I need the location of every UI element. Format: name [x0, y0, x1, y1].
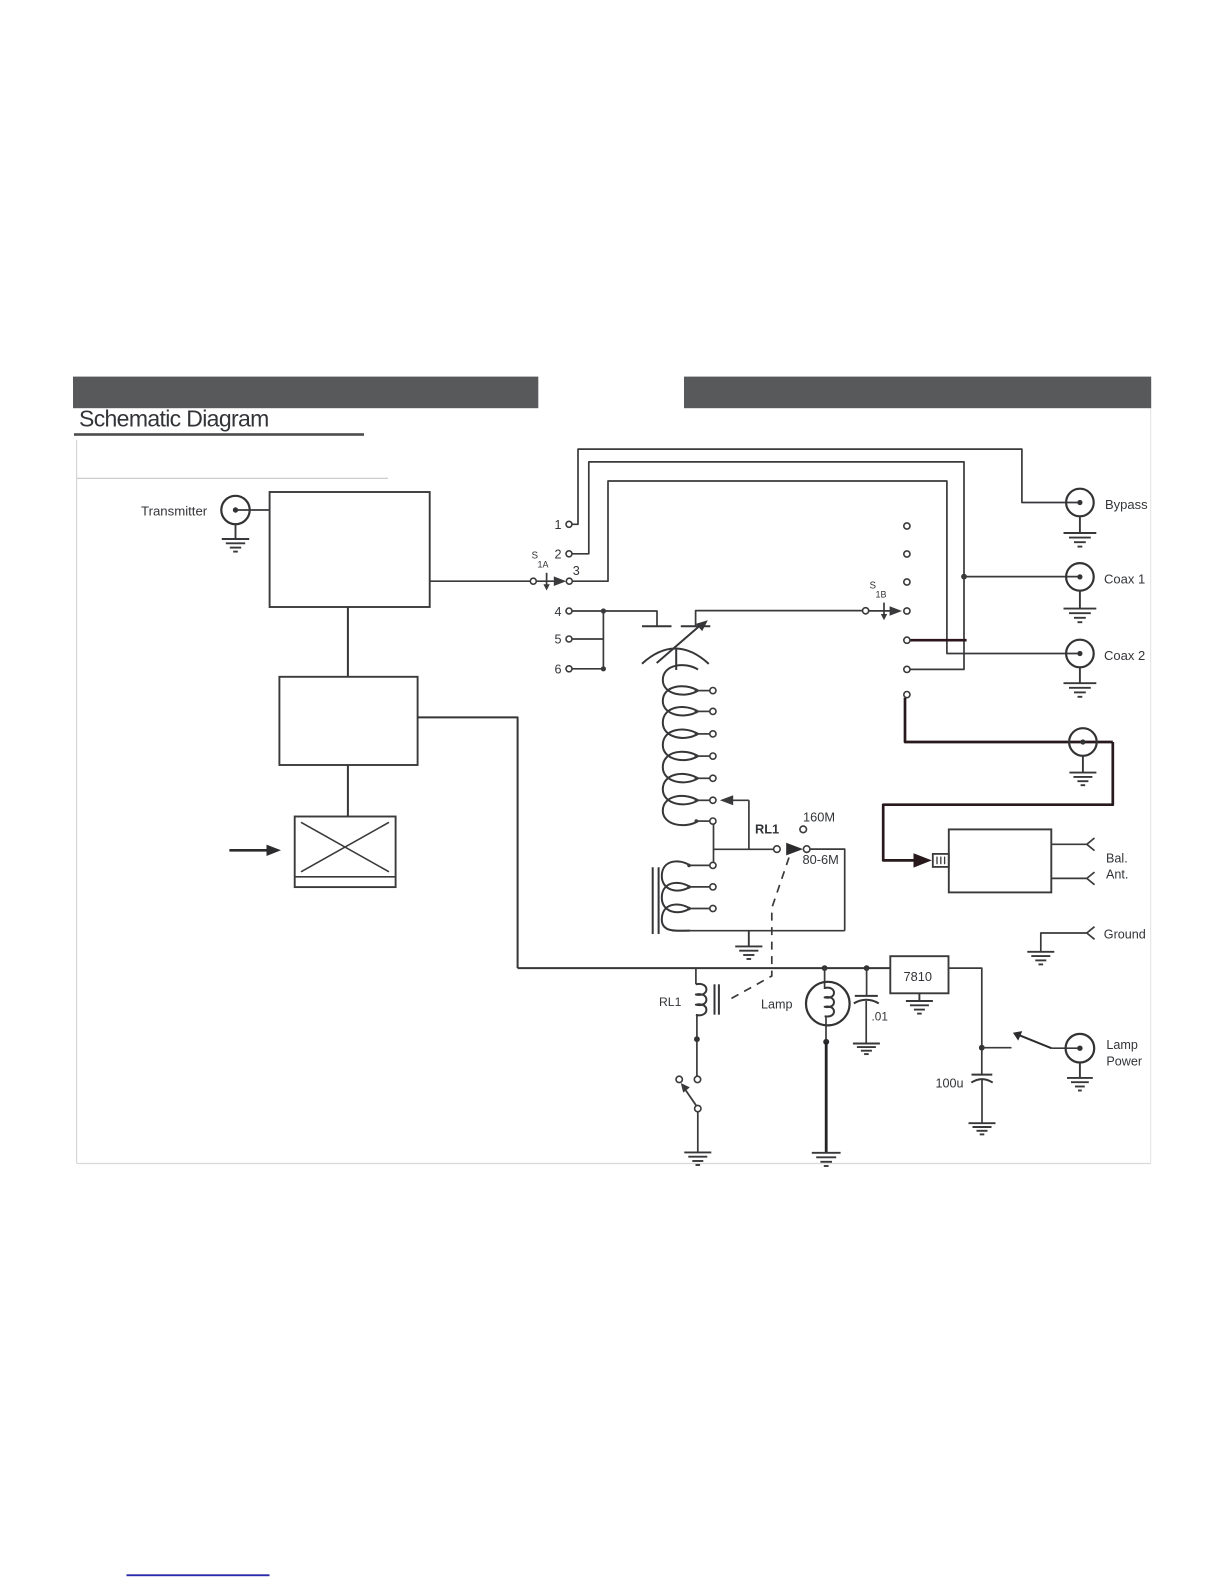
svg-text:Power: Power — [1106, 1054, 1142, 1068]
wire lamp power connector lead — [1051, 1047, 1079, 1049]
balun output lead upper — [1051, 843, 1087, 845]
RL1 sense switch lower contact — [695, 1105, 701, 1111]
wire aux connector to balun feed — [883, 742, 1113, 860]
Bypass connector — [1066, 489, 1094, 517]
Transmitter connector J1 — [221, 496, 249, 524]
relay RL1 contact 80-6M — [803, 846, 810, 853]
capacitor C1 rotor arc — [642, 648, 709, 663]
wire ground terminal — [1041, 933, 1087, 952]
inductor L1 tap leads — [697, 691, 710, 822]
capacitor C1 left plate — [642, 625, 672, 627]
S1A contact 3 — [566, 578, 572, 584]
switch S1A through wire — [536, 580, 557, 582]
relay RL1 contact 160M — [800, 826, 807, 833]
footer blue link line — [127, 1574, 270, 1576]
ground under 100u — [969, 1123, 996, 1134]
aux connector J5 — [1069, 728, 1097, 756]
inductor L1 tap circles — [710, 688, 716, 825]
header gray bar right — [684, 377, 1151, 409]
ground under Bypass — [1064, 516, 1097, 546]
transformer T1 winding — [662, 861, 690, 931]
svg-text:1: 1 — [555, 518, 562, 532]
svg-text:Ant.: Ant. — [1106, 868, 1128, 882]
block box A (SWR bridge) — [270, 492, 430, 607]
svg-text:1A: 1A — [538, 560, 549, 570]
svg-text:Bypass: Bypass — [1105, 497, 1148, 512]
S1A contact 6 — [566, 666, 572, 672]
arrow pointing at meter — [229, 845, 281, 856]
svg-text:RL1: RL1 — [659, 995, 682, 1009]
title underline — [74, 433, 364, 436]
S1A contact 4 — [566, 608, 572, 614]
wire box B down to meter — [347, 765, 349, 817]
junction dot 100u top — [979, 1045, 985, 1051]
transformer T1 tap circles — [710, 862, 716, 911]
wire 7810 output — [949, 968, 982, 1075]
svg-text:3: 3 — [573, 564, 580, 578]
svg-text:4: 4 — [555, 605, 562, 619]
regulator 7810 — [890, 956, 948, 993]
svg-text:Schematic Diagram: Schematic Diagram — [79, 406, 269, 432]
wire rotor stem to coil — [675, 650, 677, 671]
S1B rotary contacts column — [904, 523, 910, 698]
junction dot at 6 tie — [601, 666, 606, 671]
ground under lamp — [812, 1153, 841, 1166]
svg-text:.01: .01 — [872, 1009, 888, 1023]
ground under transmitter — [222, 524, 249, 551]
svg-text:Transmitter: Transmitter — [141, 504, 208, 519]
label S1A — [532, 551, 549, 570]
antenna fork lower — [1087, 872, 1095, 885]
junction dot lamp top — [822, 965, 828, 971]
svg-text:160M: 160M — [803, 810, 835, 825]
svg-text:Lamp: Lamp — [761, 998, 793, 1012]
S1A contact 2 — [566, 551, 572, 557]
RL1 sense switch lever with arrow — [681, 1083, 697, 1106]
wire RL1 common feed — [714, 848, 774, 850]
ground under .01 — [853, 1044, 880, 1055]
ground under aux connector — [1069, 756, 1096, 785]
wire box A down to box B — [347, 607, 349, 677]
switch S1B arrow — [890, 606, 902, 616]
relay RL1 common contact — [774, 846, 781, 853]
svg-text:6: 6 — [555, 662, 562, 676]
balun box — [949, 829, 1052, 892]
balun plug — [933, 854, 949, 867]
faint scan edge right vertical — [1150, 409, 1152, 1164]
wire transmitter to box — [237, 509, 270, 511]
faint scan edge top-left horizontal — [77, 477, 388, 479]
wire 100u junction to lamp switch — [982, 1047, 1012, 1049]
svg-text:Ground: Ground — [1104, 928, 1146, 942]
ground under Coax 2 — [1064, 667, 1097, 696]
relay RL1 mechanical dashed link — [730, 858, 790, 1000]
junction dot at 4 tie — [601, 608, 606, 613]
capacitor C1 variable arrow — [657, 620, 708, 663]
ground symbol at ground terminal — [1027, 952, 1054, 965]
S1A contact 1 — [566, 521, 572, 527]
transformer T1 tap leads — [689, 865, 710, 908]
svg-text:Lamp: Lamp — [1106, 1038, 1138, 1052]
switch S1B through wire — [869, 610, 892, 612]
ground under Coax 1 — [1064, 591, 1097, 622]
svg-text:7810: 7810 — [904, 969, 932, 984]
transformer T1 joint dots — [687, 864, 691, 911]
wire 80-6M to bottom rail — [810, 849, 845, 931]
svg-text:2: 2 — [555, 548, 562, 562]
tap selector arrow into tap 6 — [720, 795, 749, 849]
wire row7 contact to aux connector — [905, 698, 1113, 742]
wire box A to S1A — [430, 580, 531, 582]
switch S1B common contact — [863, 608, 869, 614]
wire contacts 4-5-6 vertical tie — [572, 611, 603, 669]
transformer T1 core bars — [653, 867, 659, 934]
lamp DS1 — [806, 982, 850, 1026]
svg-text:1B: 1B — [876, 590, 887, 600]
switch S1A arrow — [554, 576, 566, 586]
junction Coax1 tap — [961, 574, 967, 580]
capacitor C1 right plate — [681, 625, 711, 627]
relay RL1 arrow to 80-6M — [786, 843, 803, 856]
relay RL1 coil stem top — [695, 968, 697, 984]
S1A contact 5 — [566, 636, 572, 642]
switch S1A wiper down-arrow — [543, 573, 549, 591]
junction dot below RL1 coil — [694, 1036, 700, 1042]
ground under 7810 — [906, 993, 933, 1013]
header gray bar left — [73, 377, 538, 409]
arrow into balun plug — [914, 853, 932, 867]
bottom rail wire — [672, 930, 845, 932]
wire contact2 up over to right drop — [572, 462, 964, 670]
Lamp Power connector — [1066, 1034, 1095, 1063]
balun output lead lower — [1051, 877, 1087, 879]
wire Coax1 feed — [964, 576, 1079, 578]
svg-text:80-6M: 80-6M — [803, 852, 839, 867]
svg-text:Bal.: Bal. — [1106, 852, 1128, 866]
faint scan edge left vertical — [76, 440, 78, 1164]
RL1 sense switch open contact — [676, 1076, 682, 1082]
inductor L1 winding — [663, 665, 698, 825]
lamp power switch lever with arrow — [1013, 1031, 1052, 1048]
label Lamp Power — [1106, 1038, 1142, 1068]
RL1 sense switch upper contact — [694, 1076, 700, 1082]
ground under Lamp Power — [1067, 1063, 1093, 1091]
junction dot lamp bottom — [823, 1039, 829, 1045]
meter M1 (crossed box) — [295, 817, 396, 888]
ground terminal fork — [1087, 927, 1095, 940]
antenna fork upper — [1087, 838, 1095, 851]
capacitor C2 .01 — [854, 968, 879, 1043]
switch S1A common contact — [530, 578, 536, 584]
junction dot .01 top — [864, 965, 870, 971]
wire contact1 to Bypass — [572, 449, 1079, 524]
wire switch to ground — [697, 1112, 699, 1153]
faint scan edge bottom horizontal — [77, 1163, 1151, 1165]
ground at transformer bottom rail — [735, 931, 762, 959]
wire box B right to long vertical — [418, 717, 518, 968]
capacitor C3 100u — [971, 1075, 992, 1124]
svg-text:5: 5 — [555, 633, 562, 647]
wire contact4 row to capacitor — [572, 611, 657, 626]
relay RL1 coil core bars — [715, 984, 719, 1014]
block box B (meter circuit) — [279, 677, 417, 765]
wire right plate to S1B — [696, 611, 863, 627]
svg-text:Coax 2: Coax 2 — [1104, 648, 1145, 663]
wire contact3 up over to right drop to Coax2 — [572, 481, 1079, 654]
ground under RL1 switch — [684, 1152, 711, 1165]
svg-text:100u: 100u — [936, 1076, 964, 1090]
label S1B — [870, 581, 887, 600]
switch S1B wiper down-arrow — [881, 603, 887, 621]
relay RL1 coil — [696, 984, 707, 1015]
wire RL1 coil to switch — [696, 1015, 698, 1076]
wire S1B row5 dark link — [910, 639, 967, 642]
main 12V bus wire — [518, 967, 891, 969]
wire bus to lamp — [824, 968, 826, 989]
svg-text:Coax 1: Coax 1 — [1104, 571, 1145, 586]
inductor L1 joint dots — [695, 689, 699, 823]
svg-text:RL1: RL1 — [755, 822, 779, 837]
wire coil bottom down to transformer tap1 — [713, 824, 715, 862]
Coax 2 connector — [1066, 640, 1094, 668]
wire lamp to ground thick — [825, 1042, 828, 1153]
Coax 1 connector — [1066, 563, 1094, 591]
wire lamp bottom — [825, 1017, 827, 1042]
